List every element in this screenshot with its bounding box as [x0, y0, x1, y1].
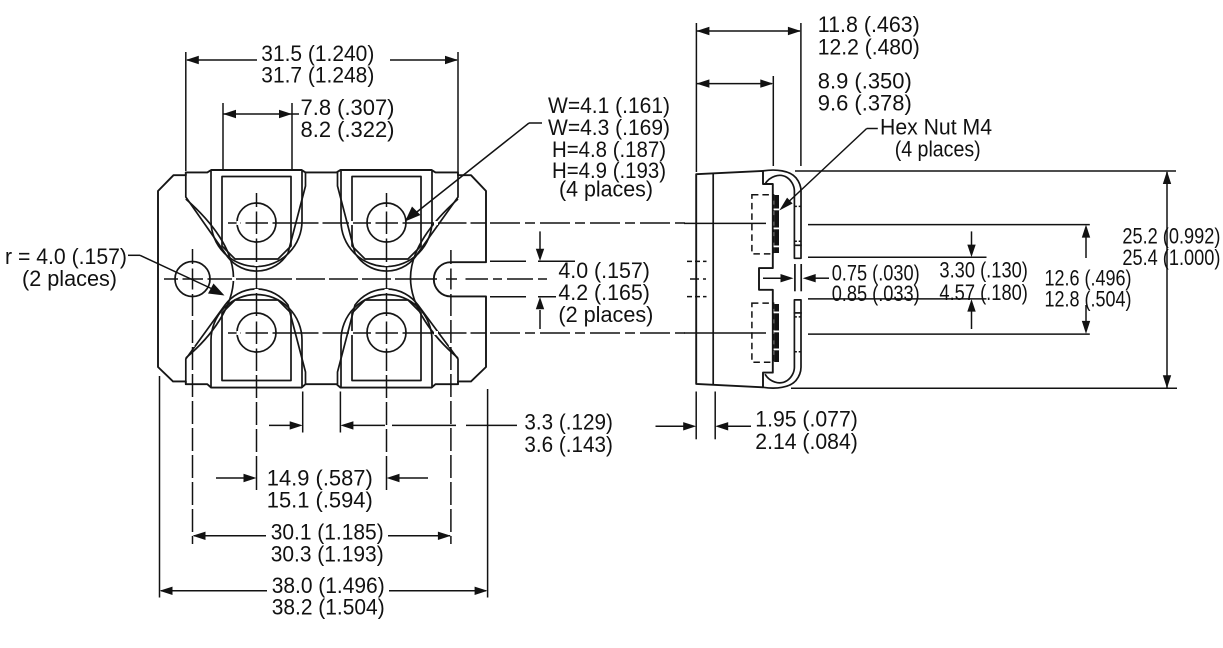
- svg-text:15.1 (.594): 15.1 (.594): [267, 487, 373, 512]
- svg-text:25.4 (1.000): 25.4 (1.000): [1122, 245, 1220, 270]
- svg-text:(4 places): (4 places): [895, 137, 981, 162]
- svg-text:31.7 (1.248): 31.7 (1.248): [261, 63, 374, 88]
- svg-text:38.2 (1.504): 38.2 (1.504): [272, 594, 385, 619]
- svg-text:12.2 (.480): 12.2 (.480): [818, 35, 920, 60]
- svg-text:1.95 (.077): 1.95 (.077): [755, 407, 858, 432]
- svg-text:(4 places): (4 places): [559, 177, 653, 202]
- svg-text:3.3 (.129): 3.3 (.129): [524, 409, 613, 434]
- svg-text:9.6 (.378): 9.6 (.378): [818, 91, 912, 116]
- svg-text:(2 places): (2 places): [22, 266, 117, 291]
- svg-text:8.2 (.322): 8.2 (.322): [301, 117, 395, 142]
- svg-text:4.57 (.180): 4.57 (.180): [939, 280, 1028, 305]
- svg-text:2.14 (.084): 2.14 (.084): [755, 429, 858, 454]
- svg-text:12.8 (.504): 12.8 (.504): [1045, 287, 1132, 312]
- svg-text:30.3 (1.193): 30.3 (1.193): [271, 541, 384, 566]
- svg-text:11.8 (.463): 11.8 (.463): [818, 12, 920, 37]
- svg-text:3.30 (.130): 3.30 (.130): [939, 258, 1028, 283]
- svg-text:3.6 (.143): 3.6 (.143): [524, 432, 613, 457]
- svg-text:0.85 (.033): 0.85 (.033): [832, 281, 920, 306]
- svg-text:(2 places): (2 places): [558, 302, 653, 327]
